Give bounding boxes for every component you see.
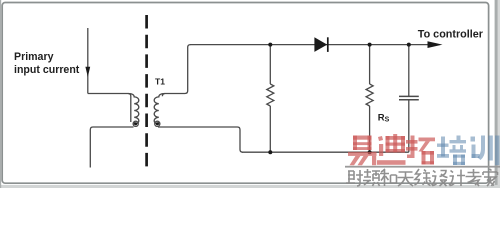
resistor Rs leads	[369, 45, 371, 84]
capacitor C1 bottom lead	[408, 100, 410, 152]
tagline char she	[346, 170, 363, 186]
transformer T1 left phase dot	[134, 122, 137, 125]
wire secondary bottom to lower rail	[158, 127, 243, 152]
diode D1 triangle	[314, 37, 327, 52]
watermark char xun	[471, 136, 500, 166]
tagline char ji	[449, 170, 465, 187]
tagline char he	[380, 169, 397, 186]
output arrow to controller	[428, 41, 443, 48]
tagline char jia	[483, 169, 498, 186]
transformer T1 left winding bottom circle	[133, 121, 138, 126]
junction dot Rs top	[368, 43, 372, 47]
transformer T1 right winding loops	[154, 94, 165, 125]
resistor R1 leads	[269, 45, 271, 84]
tagline char zhuan	[466, 169, 482, 186]
diode D1 cathode bar	[327, 37, 329, 52]
wire primary input vertical	[87, 28, 89, 94]
wire top rail	[190, 44, 428, 46]
transformer T1 right phase dot	[156, 122, 159, 125]
svg-text:input current: input current	[14, 64, 80, 76]
watermark underline	[345, 166, 500, 168]
watermark gray tagline characters	[346, 169, 498, 186]
junction dot C1 top	[407, 43, 411, 47]
watermark char pei	[437, 136, 466, 166]
arrow primary current direction	[85, 67, 90, 77]
wire secondary top to rail	[162, 45, 190, 97]
svg-text:To controller: To controller	[418, 28, 484, 40]
svg-text:RS: RS	[378, 113, 390, 124]
resistor Rs zigzag	[366, 84, 373, 106]
watermark char yi	[348, 136, 377, 166]
junction dot R1 bottom	[268, 150, 272, 154]
transformer T1 right winding bottom circle	[155, 121, 160, 126]
svg-text:Primary: Primary	[14, 51, 54, 63]
capacitor C1 plates	[399, 95, 419, 97]
watermark char tuo	[406, 136, 435, 165]
tagline char she2	[432, 171, 448, 187]
resistor R1 zigzag	[267, 84, 274, 106]
wire primary top horizontal into winding	[88, 94, 131, 123]
watermark blue characters (pei xun)	[437, 136, 500, 166]
isolation barrier dashed line	[145, 15, 148, 167]
wire primary bottom return	[90, 127, 133, 168]
watermark char di	[377, 134, 406, 165]
watermark red characters (yi di tuo)	[348, 134, 435, 165]
tagline char xian	[415, 169, 431, 186]
tagline char pin	[363, 169, 380, 186]
junction dot Rs bottom	[368, 150, 372, 154]
tagline char tian	[398, 172, 414, 186]
wire bottom rail	[242, 151, 409, 153]
transformer T1 left winding loops	[128, 94, 139, 125]
capacitor C1 top lead	[408, 45, 410, 96]
svg-text:T1: T1	[155, 77, 165, 87]
junction dot R1 top	[268, 43, 272, 47]
